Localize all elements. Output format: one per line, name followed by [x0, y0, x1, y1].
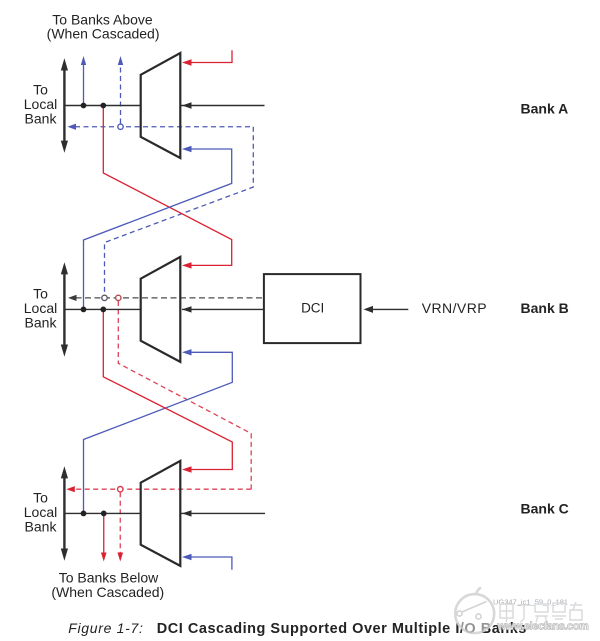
- wire: red solid cascade B to C: [103, 309, 232, 472]
- wire: bank A red cascade-in stub from bank above: [182, 50, 232, 65]
- wire: bank C red solid cascade-down arrow: [101, 513, 107, 561]
- wire: bank B gray dashed master DCI line: [68, 295, 264, 301]
- bus: bank B local bank vertical double arrow: [61, 262, 68, 357]
- wire: blue dashed cascade A to B (vertical, diagonal, vertical): [105, 127, 254, 295]
- wire: bank C mux black input line: [180, 510, 265, 516]
- svg-text:Figure 1-7:: Figure 1-7:: [68, 620, 143, 636]
- node: bank B circle 2 on master dashed line: [116, 295, 121, 300]
- wire: bank C blue stub to bank below: [182, 554, 232, 570]
- svg-text:Bank: Bank: [25, 111, 58, 127]
- wire: blue solid cascade C to B (bank B lower mux input): [84, 349, 233, 513]
- mux Bank B trapezoid: [141, 257, 181, 362]
- svg-text:Bank: Bank: [25, 314, 58, 330]
- node: bank B circle 1 on master dashed line: [102, 295, 107, 300]
- svg-text:www.elecfans.com: www.elecfans.com: [497, 621, 589, 633]
- svg-text:Bank B: Bank B: [521, 300, 569, 316]
- svg-text:VRN/VRP: VRN/VRP: [422, 300, 487, 316]
- svg-text:Bank: Bank: [25, 518, 58, 534]
- wire: bank B local output line: [65, 308, 141, 310]
- node: bank A junction dot 1: [81, 103, 87, 109]
- watermark: elecfans logo circle: [455, 588, 494, 634]
- label: To Banks Below (When Cascaded): [51, 570, 164, 601]
- label: figure caption: [68, 620, 527, 637]
- wire: bank C local output line: [65, 512, 141, 514]
- node: bank C circle on red dashed line: [118, 487, 123, 492]
- node: bank A circle on dashed line: [118, 124, 123, 129]
- svg-text:UG347_ic1_59_0_181: UG347_ic1_59_0_181: [493, 598, 568, 607]
- label: To Local Bank (bank A): [24, 82, 58, 127]
- node: bank B junction dot 1: [81, 307, 87, 313]
- mux Bank C trapezoid: [141, 461, 181, 566]
- svg-text:Bank A: Bank A: [521, 101, 569, 117]
- wire: bank B black line from DCI to mux: [182, 306, 264, 312]
- node: bank C junction dot 2: [101, 511, 107, 517]
- wire: bank A blue dashed cascade-up (master line to banks above): [118, 56, 123, 124]
- mux Bank A trapezoid: [141, 53, 181, 158]
- node: bank C junction dot 1: [81, 511, 87, 517]
- bus: bank C local bank vertical double arrow: [61, 466, 68, 561]
- label: To Local Bank (bank B): [24, 285, 58, 330]
- label: To Local Bank (bank C): [24, 489, 58, 534]
- wire: bank A local output line: [65, 105, 141, 107]
- label: To Banks Above (When Cascaded): [47, 11, 160, 41]
- wire: red dashed cascade B to C: [66, 301, 251, 492]
- wire: blue solid cascade B to A (bank A lower mux input): [84, 146, 232, 310]
- svg-text:Bank C: Bank C: [521, 501, 569, 517]
- wire: bank A mux black input line: [180, 102, 264, 108]
- wire: bank A blue solid cascade-up arrow (to banks above): [81, 56, 86, 106]
- svg-text:(When Cascaded): (When Cascaded): [51, 584, 164, 600]
- wire: bank A blue dashed horizontal (cascaded master line): [68, 124, 254, 130]
- node: bank A junction dot 2: [100, 103, 106, 109]
- wire: bank C red dashed cascade-down arrow: [117, 492, 123, 561]
- node: bank B junction dot 2: [100, 307, 106, 313]
- wire: VRN/VRP input arrow into DCI: [364, 306, 409, 313]
- component: DCI box U1: [264, 274, 361, 343]
- wire: red solid cascade A to B: [103, 106, 231, 269]
- bus: bank A local bank vertical double arrow: [61, 58, 68, 153]
- svg-text:DCI: DCI: [301, 301, 324, 316]
- watermark: chinese characters: [500, 602, 582, 622]
- svg-text:(When Cascaded): (When Cascaded): [47, 25, 160, 41]
